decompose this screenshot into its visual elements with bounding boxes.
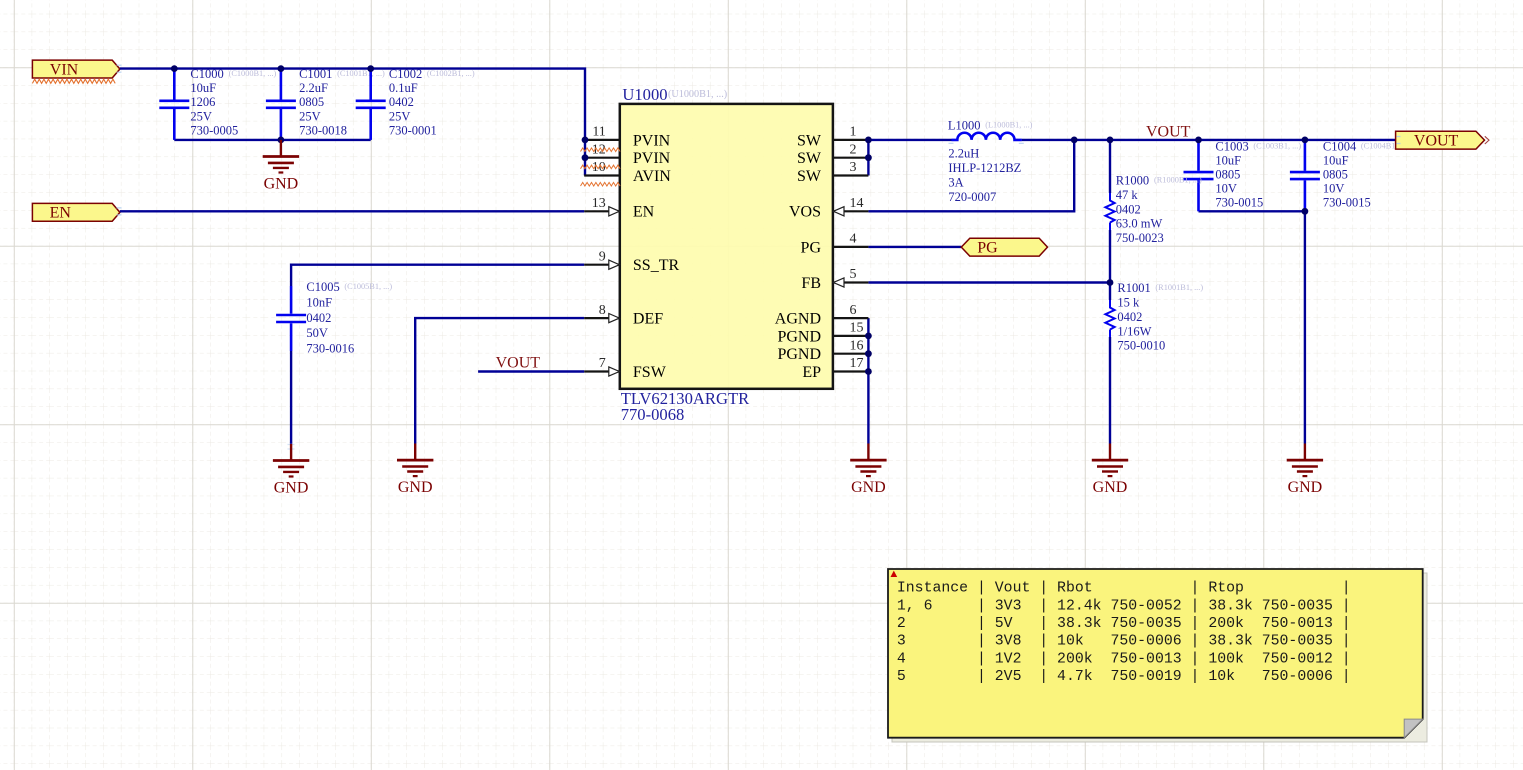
ground GND (C1005) [273, 444, 309, 497]
svg-text:730-0015: 730-0015 [1215, 196, 1263, 210]
wire VOUT rail down R1000 R1001 [1109, 140, 1111, 444]
port EN [32, 203, 120, 221]
svg-text:SW: SW [797, 168, 822, 185]
svg-text:0402: 0402 [306, 311, 331, 325]
wire SS_TR to C1005 [291, 265, 584, 286]
svg-text:730-0018: 730-0018 [299, 123, 347, 137]
svg-text:(L1000B1, ...): (L1000B1, ...) [985, 120, 1032, 129]
svg-text:3 | 3V8 | 10k 750-00: 3 | 3V8 | 10k 750-0006 | 38.3k 750-0035 … [897, 634, 1351, 650]
svg-text:730-0015: 730-0015 [1323, 196, 1371, 210]
wire PG [868, 246, 961, 248]
wire VIN rail to PVIN pins [120, 69, 585, 176]
svg-text:PG: PG [977, 240, 998, 257]
svg-text:(C1005B1, ...): (C1005B1, ...) [344, 282, 392, 291]
capacitor C1002 [356, 69, 386, 140]
op-amp U1000 body [620, 85, 833, 424]
svg-text:GND: GND [1288, 479, 1323, 496]
svg-text:FSW: FSW [633, 364, 667, 381]
capacitor C1005 [276, 286, 306, 351]
label C1003 values [1215, 140, 1301, 210]
svg-text:10uF: 10uF [1215, 154, 1241, 168]
svg-text:5 | 2V5 | 4.7k 750-00: 5 | 2V5 | 4.7k 750-0019 | 10k 750-0006 | [897, 669, 1351, 685]
pin 6 AGND [775, 303, 869, 328]
pin 10 AVIN [584, 160, 671, 185]
wire FSW [478, 370, 584, 372]
svg-text:SW: SW [797, 132, 822, 149]
svg-text:4 | 1V2 | 200k 750-00: 4 | 1V2 | 200k 750-0013 | 100k 750-0012 … [897, 651, 1351, 667]
svg-text:EP: EP [802, 364, 821, 381]
svg-text:750-0010: 750-0010 [1117, 339, 1165, 353]
svg-text:10V: 10V [1215, 182, 1237, 196]
svg-text:GND: GND [264, 176, 299, 193]
svg-text:3: 3 [850, 160, 857, 175]
pin 11 PVIN [584, 125, 670, 150]
pin 7 FSW [584, 356, 666, 381]
svg-text:R1001: R1001 [1117, 281, 1150, 295]
wire AGND PGND EP to ground [867, 318, 869, 443]
svg-text:15: 15 [850, 321, 864, 336]
svg-text:2.2uH: 2.2uH [948, 146, 979, 160]
svg-text:0805: 0805 [299, 95, 324, 109]
svg-text:14: 14 [850, 196, 864, 211]
svg-text:2: 2 [850, 142, 857, 157]
svg-text:10uF: 10uF [190, 81, 216, 95]
svg-text:25V: 25V [190, 109, 212, 123]
pin 8 DEF [584, 303, 663, 328]
svg-text:GND: GND [398, 479, 433, 496]
pin 4 PG [801, 232, 869, 257]
svg-text:GND: GND [274, 480, 309, 497]
wire C1003 bottom to C1004 [1199, 210, 1305, 212]
ERC marker under VIN port [32, 79, 115, 83]
svg-text:15 k: 15 k [1117, 296, 1140, 310]
svg-text:10uF: 10uF [1323, 154, 1349, 168]
svg-text:Instance | Vout | Rbot: Instance | Vout | Rbot | Rtop | [897, 581, 1351, 597]
pin 2 SW [797, 142, 868, 167]
svg-text:0805: 0805 [1215, 168, 1240, 182]
note: Vout configuration table [888, 569, 1427, 742]
svg-text:47 k: 47 k [1116, 188, 1139, 202]
capacitor C1003 [1184, 140, 1214, 211]
svg-text:720-0007: 720-0007 [948, 190, 996, 204]
wire junctions [171, 65, 1308, 375]
wire VOS sense [868, 140, 1074, 211]
svg-text:L1000: L1000 [948, 119, 981, 133]
wire L1000 to VOUT port [1022, 139, 1396, 141]
svg-text:730-0005: 730-0005 [190, 123, 238, 137]
svg-text:770-0068: 770-0068 [621, 405, 685, 424]
svg-text:16: 16 [850, 338, 864, 353]
resistor R1000 [1105, 174, 1202, 246]
svg-text:11: 11 [592, 125, 605, 140]
capacitor C1001 [266, 69, 296, 140]
wire SW to L1000 [868, 139, 951, 141]
svg-text:C1000: C1000 [190, 67, 223, 81]
svg-text:PGND: PGND [777, 328, 821, 345]
pin 3 SW [797, 160, 868, 185]
svg-text:PGND: PGND [777, 346, 821, 363]
svg-text:U1000: U1000 [622, 85, 667, 104]
svg-text:PVIN: PVIN [633, 132, 671, 149]
wire FB [868, 281, 1110, 283]
svg-text:4: 4 [850, 232, 857, 247]
svg-text:(C1000B1, ...): (C1000B1, ...) [229, 69, 277, 78]
label C1002 values [389, 67, 475, 137]
svg-text:5: 5 [850, 267, 857, 282]
ERC marker pin 12 [581, 148, 621, 152]
svg-text:3A: 3A [948, 175, 963, 189]
svg-text:C1004: C1004 [1323, 140, 1357, 154]
svg-text:50V: 50V [306, 326, 328, 340]
svg-text:C1003: C1003 [1215, 140, 1248, 154]
pin 5 FB [801, 267, 868, 292]
svg-text:1, 6 | 3V3 | 12.4k 750-00: 1, 6 | 3V3 | 12.4k 750-0052 | 38.3k 750-… [897, 598, 1351, 614]
wire C1004 to ground [1304, 211, 1306, 443]
svg-text:IHLP-1212BZ: IHLP-1212BZ [948, 161, 1021, 175]
pin hotspot markers [117, 65, 1401, 449]
svg-text:730-0016: 730-0016 [306, 341, 354, 355]
svg-text:SS_TR: SS_TR [633, 257, 680, 274]
port VIN [32, 60, 120, 78]
ground GND (input caps) [263, 140, 299, 193]
svg-text:0.1uF: 0.1uF [389, 81, 418, 95]
svg-text:8: 8 [599, 303, 606, 318]
svg-text:6: 6 [850, 303, 857, 318]
svg-text:(U1000B1, ...): (U1000B1, ...) [668, 89, 727, 100]
pin 9 SS_TR [584, 249, 679, 274]
pin 14 VOS [789, 196, 868, 221]
wire DEF to ground [415, 318, 584, 443]
ERC marker pin 10 [581, 165, 621, 169]
label C1005 values [306, 280, 392, 355]
wire input cap bottom rail [174, 139, 370, 141]
svg-text:EN: EN [633, 204, 655, 221]
port PG [961, 238, 1047, 256]
svg-text:VOUT: VOUT [1146, 124, 1191, 141]
svg-text:VIN: VIN [50, 61, 79, 78]
svg-text:EN: EN [50, 205, 72, 222]
svg-text:(R1001B1, ...): (R1001B1, ...) [1155, 283, 1203, 292]
svg-text:0402: 0402 [1116, 202, 1141, 216]
svg-text:25V: 25V [389, 109, 411, 123]
ground GND (DEF) [397, 444, 433, 497]
svg-text:C1002: C1002 [389, 67, 422, 81]
svg-text:17: 17 [850, 356, 864, 371]
svg-text:(C1002B1, ...): (C1002B1, ...) [427, 69, 475, 78]
svg-text:25V: 25V [299, 109, 321, 123]
svg-text:FB: FB [801, 275, 821, 292]
svg-text:1206: 1206 [190, 95, 215, 109]
svg-text:(C1001B1, ...): (C1001B1, ...) [337, 69, 385, 78]
ground GND (output caps) [1287, 444, 1323, 497]
svg-text:R1000: R1000 [1116, 174, 1149, 188]
wire EN [120, 210, 584, 212]
pin 12 PVIN [584, 142, 670, 167]
wire C1005 to ground [290, 351, 292, 444]
pin 13 EN [584, 196, 654, 221]
ground GND (PGND/EP) [850, 444, 886, 497]
svg-text:10nF: 10nF [306, 296, 332, 310]
svg-text:7: 7 [599, 356, 606, 371]
svg-text:0402: 0402 [389, 95, 414, 109]
svg-text:C1005: C1005 [306, 280, 339, 294]
svg-text:AVIN: AVIN [633, 168, 671, 185]
svg-text:PVIN: PVIN [633, 150, 671, 167]
ground GND (R1001) [1092, 444, 1128, 497]
inductor L1000 [948, 119, 1033, 204]
svg-text:PG: PG [801, 239, 822, 256]
svg-text:VOS: VOS [789, 204, 821, 221]
wire SW pins tie [867, 140, 869, 176]
pin 16 PGND [777, 338, 868, 363]
capacitor C1000 [159, 69, 189, 140]
pin 1 SW [797, 125, 868, 150]
svg-text:0805: 0805 [1323, 168, 1348, 182]
svg-text:VOUT: VOUT [496, 354, 541, 371]
label C1001 values [299, 67, 385, 137]
svg-text:13: 13 [592, 196, 606, 211]
svg-text:63.0 mW: 63.0 mW [1116, 217, 1163, 231]
svg-text:(C1003B1, ...): (C1003B1, ...) [1253, 141, 1301, 150]
svg-text:(R1000B1, ...): (R1000B1, ...) [1154, 175, 1202, 184]
svg-text:9: 9 [599, 249, 606, 264]
svg-text:2 | 5V | 38.3k 750-00: 2 | 5V | 38.3k 750-0035 | 200k 750-0013 … [897, 616, 1351, 632]
svg-text:0402: 0402 [1117, 310, 1142, 324]
svg-text:2.2uF: 2.2uF [299, 81, 328, 95]
label C1000 values [190, 67, 276, 137]
svg-text:750-0023: 750-0023 [1116, 231, 1164, 245]
svg-text:VOUT: VOUT [1414, 133, 1459, 150]
svg-text:AGND: AGND [775, 311, 821, 328]
svg-text:GND: GND [1093, 479, 1128, 496]
capacitor C1004 [1290, 140, 1320, 211]
ERC marker below AVIN [581, 182, 621, 186]
svg-text:1: 1 [850, 125, 857, 140]
port VOUT [1396, 131, 1489, 150]
svg-text:DEF: DEF [633, 311, 663, 328]
svg-text:10V: 10V [1323, 182, 1345, 196]
pin 15 PGND [777, 321, 868, 346]
svg-text:GND: GND [851, 479, 886, 496]
svg-text:1/16W: 1/16W [1117, 324, 1151, 338]
resistor R1001 [1105, 281, 1203, 353]
svg-text:SW: SW [797, 150, 822, 167]
label C1004 values [1323, 140, 1409, 210]
pin 17 EP [802, 356, 868, 381]
svg-text:C1001: C1001 [299, 67, 332, 81]
svg-text:730-0001: 730-0001 [389, 123, 437, 137]
